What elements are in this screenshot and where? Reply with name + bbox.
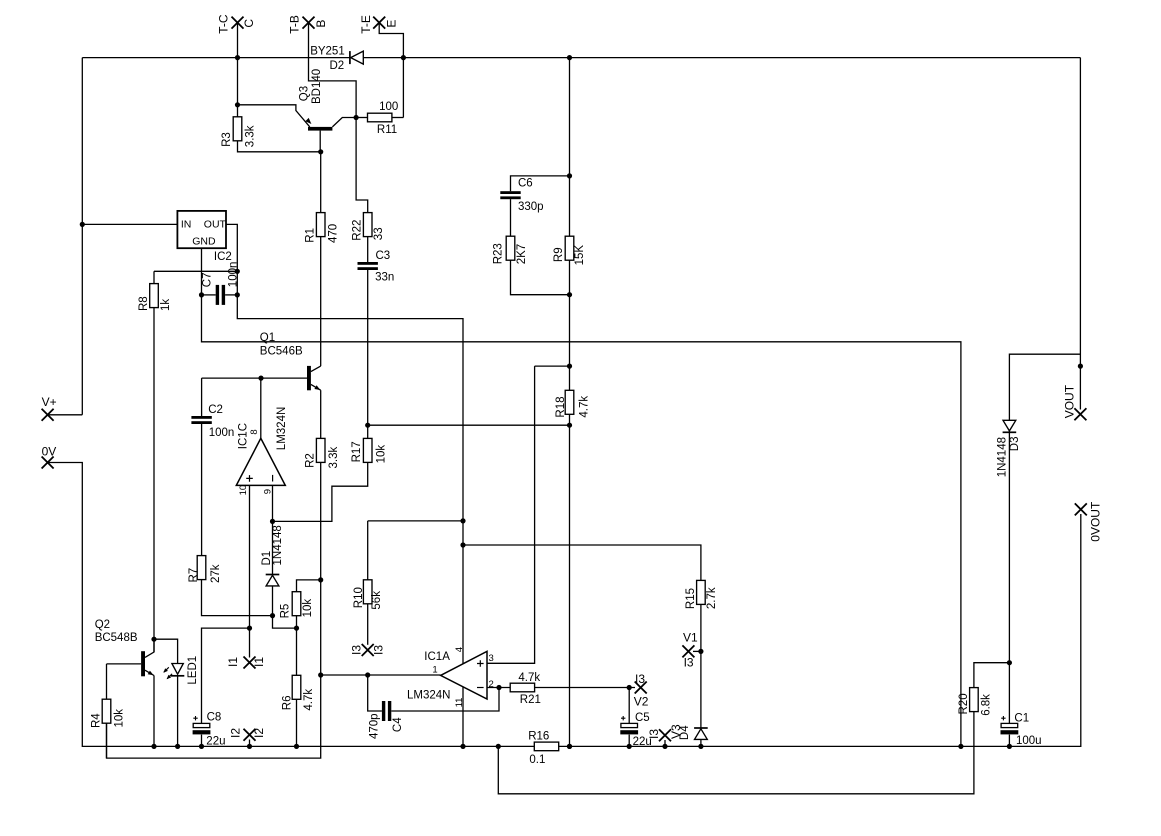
resistor R2 3.3k (316, 438, 325, 462)
wire I1 node to terminal (249, 628, 251, 657)
diode D4 1N4148 (694, 727, 708, 729)
wire C8 bottom to ground rail (201, 735, 203, 747)
terminal 0VOUT (1075, 503, 1087, 515)
svg-text:100u: 100u (1016, 735, 1042, 747)
transistor Q2 collector diagonal and stub (145, 639, 154, 657)
node junction R23 bottom on middle rail (567, 292, 572, 297)
svg-text:V2: V2 (634, 695, 649, 709)
wire R1 top lead from Q3 base node (320, 152, 322, 213)
wire 0V terminal to bottom ground rail (48, 463, 535, 747)
wire IC2 OUT down and across to IC1A pin4 column (226, 224, 463, 746)
svg-text:D2: D2 (330, 60, 345, 72)
svg-text:4.7k: 4.7k (303, 689, 315, 711)
node junction R5 top tap (318, 577, 323, 582)
resistor R6 4.7k (296, 628, 298, 675)
svg-text:I3: I3 (635, 672, 645, 686)
svg-text:V1: V1 (683, 631, 698, 645)
svg-text:4.7k: 4.7k (579, 396, 591, 418)
wire ground detour to R20 bottom (498, 711, 974, 793)
svg-text:I3: I3 (684, 656, 694, 670)
wire IC2 IN from left rail (82, 223, 177, 225)
svg-text:B: B (314, 20, 328, 28)
svg-text:R4: R4 (91, 713, 103, 728)
resistor R7 27k (197, 556, 206, 580)
resistor R18 4.7k (565, 390, 574, 414)
wire R6 bottom to ground rail (296, 699, 298, 746)
svg-text:IC2: IC2 (214, 251, 232, 263)
svg-text:10: 10 (238, 485, 249, 496)
resistor R11 100 (356, 117, 367, 119)
capacitor C6 330p (500, 191, 520, 194)
terminal V1 (682, 645, 694, 657)
ic IC2 regulator box (177, 211, 226, 248)
wire Q3 base down to node (319, 131, 321, 152)
wire Q3 emitter from junction (238, 105, 310, 127)
svg-text:LM324N: LM324N (407, 690, 450, 702)
node junction R17 top tap to R18 bottom (365, 423, 370, 428)
diode D3 1N4148 (1003, 420, 1016, 431)
op-amp IC1A minus input mark (477, 687, 484, 689)
svg-text:GND: GND (192, 235, 216, 247)
svg-text:R7: R7 (188, 568, 200, 583)
node junction T-E on top rail (401, 55, 406, 60)
svg-text:100: 100 (379, 101, 398, 113)
node junction Q3 base / R1 top (318, 149, 323, 154)
wire R23 bottom to middle rail (511, 260, 570, 295)
svg-text:C6: C6 (518, 177, 533, 189)
svg-text:R2: R2 (305, 453, 317, 468)
svg-text:C: C (242, 19, 256, 28)
transistor Q1 emitter arrow (NPN) (314, 385, 320, 390)
resistor R23 2K7 (506, 236, 515, 260)
svg-text:R1: R1 (304, 228, 316, 243)
svg-text:3.3k: 3.3k (328, 447, 340, 469)
svg-text:T-C: T-C (217, 14, 231, 34)
svg-text:1k: 1k (160, 299, 172, 311)
wire right rail to VOUT terminal (1079, 58, 1081, 410)
terminal I3 V2 (635, 682, 647, 694)
capacitor C3 33n (358, 262, 378, 265)
node junction R6 on ground rail (294, 744, 299, 749)
svg-text:100n: 100n (209, 427, 235, 439)
svg-text:9: 9 (262, 489, 273, 494)
svg-text:22u: 22u (206, 735, 225, 747)
svg-text:VOUT: VOUT (1062, 384, 1076, 418)
op-amp IC1A LM324N triangle (441, 651, 487, 699)
svg-text:3: 3 (489, 653, 494, 664)
transistor Q2 base bar (141, 651, 145, 676)
svg-text:OUT: OUT (204, 218, 227, 230)
wire left V+ rail down to IC2 IN junction and V+ entry (81, 58, 83, 415)
wire IC1A output to R2 column tap (321, 674, 441, 676)
node junction V2 tap (627, 685, 632, 690)
resistor R5 10k (292, 592, 301, 616)
wire R8 top tap (154, 270, 237, 272)
svg-text:100n: 100n (227, 262, 239, 288)
transistor Q1 base bar (307, 366, 311, 390)
svg-text:D3: D3 (1009, 436, 1021, 451)
wire D4 anode to ground rail (700, 739, 702, 746)
svg-text:C2: C2 (208, 404, 223, 416)
resistor R3 3.3k (233, 117, 242, 141)
op-amp IC1C LM324N triangle (236, 438, 285, 485)
node junction V3 on ground rail (662, 744, 667, 749)
svg-text:2: 2 (489, 679, 494, 690)
wire T-E to top rail and down to R11 (379, 23, 403, 118)
resistor R16 0.1 in ground rail (534, 742, 558, 751)
wire R1 bottom down to Q1 collector (320, 237, 322, 367)
wire C6 top tap (511, 176, 570, 191)
svg-text:R20: R20 (958, 693, 970, 714)
wire T-B to Q3 collector junction (309, 23, 357, 118)
terminal T-B (303, 17, 315, 29)
node junction pin2 / R21 / C4 (496, 685, 501, 690)
pin 9 IC1C - input down to D1 node (272, 485, 274, 521)
wire C4 left lead down (368, 675, 382, 711)
svg-text:C5: C5 (635, 712, 650, 724)
node junction IC1A output tap (318, 672, 323, 677)
wire C3 bottom down to R17 top crossing other wires (367, 270, 369, 439)
capacitor C1 100u electrolytic (1001, 723, 1018, 727)
wire bottom ground rail right of R16 to 0VOUT riser (559, 514, 1081, 746)
svg-text:10k: 10k (113, 709, 125, 728)
wire C1 bottom to ground rail (1008, 735, 1010, 747)
node junction C5 on ground rail (627, 744, 632, 749)
node junction pin9 / R17 / D1 (270, 519, 275, 524)
svg-text:BC546B: BC546B (260, 345, 303, 357)
wire R5 bottom to junction (296, 616, 298, 628)
svg-text:IC1A: IC1A (424, 651, 450, 663)
wire V+ terminal stub (48, 414, 83, 416)
svg-text:I1: I1 (252, 657, 266, 667)
wire Q2 emitter to ground rail (153, 676, 155, 747)
svg-text:R21: R21 (520, 694, 541, 706)
resistor R8 1k (153, 271, 155, 283)
wire IC1A pin3 net riser (487, 366, 535, 663)
svg-text:1: 1 (432, 664, 437, 675)
svg-text:56k: 56k (371, 591, 383, 610)
svg-text:BD140: BD140 (311, 69, 323, 104)
svg-text:V3: V3 (669, 724, 683, 739)
wire R7 bottom to D1 column (202, 580, 273, 616)
resistor R1 470 (316, 213, 325, 237)
svg-text:LM324N: LM324N (276, 407, 288, 450)
terminal T-C (232, 17, 244, 29)
wire C4 right lead up to pin2 node (391, 688, 499, 712)
wire middle rail from top rail down to R9 (569, 58, 571, 237)
transistor Q2 emitter arrow (NPN) (148, 671, 154, 676)
node junction pin11 on ground rail (460, 744, 465, 749)
resistor R17 10k (363, 438, 372, 462)
svg-text:1N4148: 1N4148 (272, 525, 284, 565)
wire top supply rail from D2 anode to top-right corner (363, 57, 1080, 59)
node junction rail right of R16 (567, 744, 572, 749)
node junction C4 tap on output wire (365, 672, 370, 677)
wire pin2 to R21 (487, 687, 510, 689)
wire V2 node down to C5 (628, 688, 630, 724)
node junction D1 cathode lead / R7 (270, 613, 275, 618)
svg-text:6.8k: 6.8k (981, 694, 993, 716)
svg-text:R8: R8 (138, 296, 150, 311)
wire pin9 node to R17 bottom jog (273, 462, 368, 521)
wire R10 bottom to I3 terminal (367, 604, 369, 645)
svg-text:C4: C4 (392, 717, 404, 732)
svg-text:C3: C3 (376, 250, 391, 262)
pin 8 IC1C output up to Q1 base node (260, 378, 262, 438)
transistor Q3 collector diagonal to R11 node (332, 118, 356, 127)
wire LED1 cathode to ground rail (177, 676, 179, 747)
svg-text:R18: R18 (555, 396, 567, 417)
terminal 0V (42, 457, 54, 469)
node junction C7 right on OUT net (235, 292, 240, 297)
wire R15 tap from pin4 column (463, 545, 701, 580)
node junction I1 / C8 / pin10 (247, 626, 252, 631)
wire R22 bottom to C3 (367, 237, 369, 262)
op-amp IC1A plus input mark (477, 660, 484, 667)
resistor R21 4.7k (510, 683, 534, 692)
node junction C1 on ground rail (1007, 744, 1012, 749)
wire R2 bottom long column to lower rail jog (107, 462, 321, 758)
svg-text:0V: 0V (42, 445, 57, 459)
wire R3 bottom to Q3 base node (238, 141, 321, 152)
wire Q1 emitter down to R2 (320, 390, 322, 438)
capacitor C5 22u electrolytic (621, 723, 638, 727)
wire R4 bottom crossing ground rail to lower jog rail (106, 723, 108, 758)
svg-text:I3: I3 (647, 729, 661, 739)
wire V1 terminal stub (693, 650, 701, 652)
wire V3 terminal to ground rail (664, 740, 666, 746)
wire C2 bottom to R7 (201, 424, 203, 556)
node junction R10 tap on OUT net column (460, 518, 465, 523)
resistor R4 10k (102, 699, 111, 723)
svg-text:330p: 330p (518, 201, 544, 213)
svg-text:R10: R10 (353, 587, 365, 608)
wire R5 top to R2 column tap (297, 580, 321, 592)
svg-text:3.3k: 3.3k (245, 125, 257, 147)
svg-text:8: 8 (249, 429, 260, 434)
svg-text:I3: I3 (371, 645, 385, 655)
terminal T-E (373, 17, 385, 29)
capacitor C7 100n (216, 285, 219, 305)
node junction R18 top tap to IC1A pin3 (567, 364, 572, 369)
transistor Q2 emitter diagonal (145, 670, 154, 675)
svg-text:BY251: BY251 (310, 46, 345, 58)
wire R21 right to V2 node (535, 687, 635, 689)
svg-text:4: 4 (454, 647, 465, 652)
svg-text:I2: I2 (252, 728, 266, 738)
transistor Q1 emitter diagonal (311, 384, 321, 390)
node junction Q3 collector / R11 / R22 (354, 115, 359, 120)
wire IC2 GND down and long ground reference to right side (202, 248, 961, 746)
node junction GND reference on ground rail (958, 744, 963, 749)
capacitor C2 100n (201, 378, 203, 416)
wire top supply rail from left rail corner to D2 cathode (82, 57, 350, 59)
wire C7 right lead (225, 294, 237, 296)
wire C8 tap from I1 node (202, 628, 250, 723)
node junction R18 bottom (567, 423, 572, 428)
svg-text:R11: R11 (377, 124, 397, 136)
wire R15 bottom to D4 (700, 604, 702, 728)
terminal V+ (42, 409, 54, 421)
svg-text:4.7k: 4.7k (518, 672, 540, 684)
svg-text:0VOUT: 0VOUT (1089, 501, 1103, 542)
pin 10 IC1C + input down to I1 node (249, 485, 251, 628)
transistor Q3 BD140 base bar (308, 127, 332, 131)
node junction R3 top / Q3 emitter tap (235, 102, 240, 107)
led LED1 emission arrows (164, 667, 169, 672)
wire R8 bottom down to Q2 collector (153, 308, 155, 652)
node junction R15 tap on OUT net column (460, 542, 465, 547)
node junction IC2 IN on left rail (80, 222, 85, 227)
svg-text:0.1: 0.1 (529, 754, 545, 766)
svg-text:I1: I1 (226, 657, 240, 667)
wire R17 top tap to R18 bottom junction (368, 424, 570, 426)
svg-text:470: 470 (328, 224, 340, 243)
resistor R22 33 (363, 213, 372, 237)
node junction T-C on top rail (235, 55, 240, 60)
op-amp IC1C plus input mark (246, 475, 253, 482)
svg-text:1N4148: 1N4148 (997, 437, 1009, 477)
terminal I2 (244, 729, 256, 741)
wire R18 bottom down middle rail to ground rail (569, 414, 571, 746)
svg-text:I3: I3 (349, 645, 363, 655)
wire C5 bottom to ground rail (628, 735, 630, 747)
resistor R15 2.7k (697, 580, 706, 604)
svg-text:470p: 470p (368, 713, 380, 739)
svg-text:IN: IN (181, 218, 192, 230)
svg-text:R6: R6 (282, 695, 294, 710)
svg-text:R15: R15 (685, 588, 697, 609)
svg-text:R16: R16 (528, 731, 549, 743)
svg-text:10k: 10k (375, 445, 387, 464)
wire Q2 base from R4 corner (107, 663, 142, 665)
svg-text:Q1: Q1 (260, 332, 275, 344)
node junction D1 / R5 / R6 (294, 626, 299, 631)
svg-text:R3: R3 (221, 132, 233, 147)
node junction V1 tap (698, 649, 703, 654)
terminal VOUT (1074, 408, 1086, 420)
led LED1 (154, 639, 178, 663)
diode D2 BY251 on top rail (349, 51, 351, 64)
svg-text:R5: R5 (280, 604, 292, 619)
svg-text:E: E (385, 20, 399, 28)
svg-text:Q2: Q2 (95, 619, 110, 631)
node junction I2 on ground rail (247, 744, 252, 749)
svg-text:10k: 10k (302, 599, 314, 618)
node junction D4 on ground rail (698, 744, 703, 749)
node junction middle rail on top rail (567, 55, 572, 60)
terminal V3 (659, 729, 671, 741)
svg-text:C8: C8 (207, 712, 222, 724)
node junction C6 tap (567, 173, 572, 178)
transistor Q3 emitter arrow (PNP) (305, 118, 311, 124)
svg-text:T-E: T-E (359, 15, 373, 34)
capacitor C4 470p (382, 701, 385, 721)
svg-text:BC548B: BC548B (95, 632, 138, 644)
svg-text:Q3: Q3 (299, 86, 311, 101)
node junction D3 / C1 / R20 (1007, 660, 1012, 665)
node junction detour tap left of R16 (496, 744, 501, 749)
svg-text:27k: 27k (210, 564, 222, 583)
op-amp IC1C minus input mark (272, 475, 274, 482)
wire R10 top tap from pin4 column (368, 520, 463, 522)
svg-text:IC1C: IC1C (237, 423, 249, 449)
wire R9 bottom to R18 top (569, 260, 571, 390)
svg-text:I2: I2 (229, 728, 243, 738)
svg-text:C1: C1 (1014, 712, 1029, 724)
svg-text:LED1: LED1 (187, 656, 199, 685)
svg-text:V+: V+ (42, 395, 57, 409)
node junction Q2 emitter on ground rail (151, 744, 156, 749)
svg-text:R23: R23 (493, 243, 505, 264)
svg-text:R22: R22 (351, 220, 363, 241)
wire R4 top lead (106, 664, 108, 699)
terminal I3 below R10 (362, 644, 374, 656)
node junction VOUT on right rail (1078, 364, 1083, 369)
wire VOUT branch to D3 (1009, 354, 1080, 420)
svg-text:T-B: T-B (288, 15, 302, 34)
svg-text:11: 11 (454, 698, 465, 708)
node junction Q2 collector / LED1 tap (151, 637, 156, 642)
capacitor C8 22u electrolytic (193, 723, 210, 727)
wire R20 top to D3/C1 node (974, 663, 1010, 688)
svg-text:33n: 33n (375, 272, 394, 284)
node junction middle rail on ground rail (567, 744, 572, 749)
wire R10 top lead (367, 521, 369, 580)
transistor Q1 collector diagonal (311, 366, 321, 372)
terminal I1 (244, 657, 256, 669)
wire Q1 base from C2 corner (202, 377, 307, 379)
svg-text:R9: R9 (553, 247, 565, 262)
svg-text:2.7k: 2.7k (706, 587, 718, 609)
wire C7 left lead to IC2 GND column (202, 294, 216, 296)
wire D3 cathode down to node and C1 (1008, 431, 1010, 724)
node junction R8 tap on OUT net (235, 269, 240, 274)
node junction C8 on ground rail (199, 744, 204, 749)
wire T-C down to top rail and R3 (237, 23, 239, 117)
wire D1 anode down to R5 bottom junction (273, 586, 297, 628)
node junction LED1 on ground rail (175, 744, 180, 749)
wire R18 top tap to pin3 riser (535, 365, 570, 367)
node junction IC1C output on Q1 base wire (258, 376, 263, 381)
diode D1 1N4148 (272, 521, 274, 574)
svg-text:R17: R17 (351, 441, 363, 462)
node junction C7 left on GND column (199, 292, 204, 297)
svg-text:33: 33 (373, 227, 385, 240)
resistor R9 15K (565, 236, 574, 260)
wire C6 bottom to R23 (510, 199, 512, 236)
wire I2 terminal to ground rail (249, 740, 251, 747)
svg-text:C7: C7 (202, 272, 214, 287)
resistor R10 56k (363, 580, 372, 604)
resistor R20 6.8k (970, 688, 979, 712)
svg-text:15K: 15K (574, 245, 586, 266)
wire R22 top lead from collector junction (356, 118, 368, 213)
svg-text:2K7: 2K7 (516, 244, 528, 264)
